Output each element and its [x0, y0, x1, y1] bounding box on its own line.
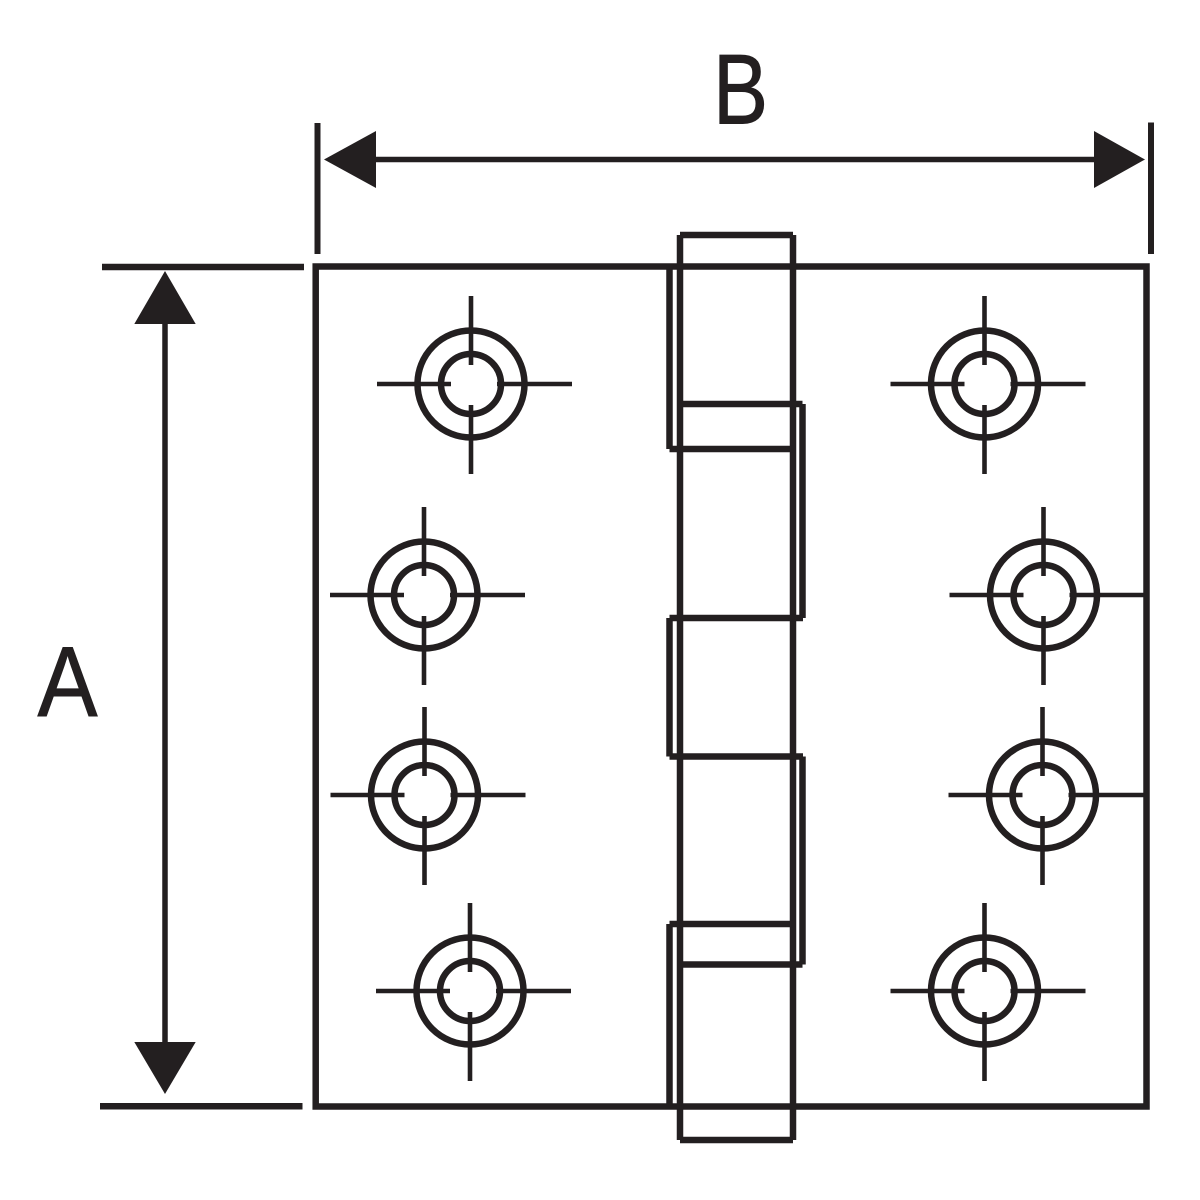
knuckle joint line y=756 [670, 753, 804, 760]
dimension A bottom extension line [100, 1103, 303, 1110]
knuckle barrel left edge x=680 [677, 235, 684, 1140]
dimension A top arrowhead [134, 271, 195, 324]
knuckle joint line y=618 [670, 615, 804, 622]
dimension B left extension tick [315, 123, 321, 254]
dimension B right extension tick [1148, 123, 1154, 255]
knuckle bottom cap [680, 1137, 793, 1144]
dimension B left arrowhead [324, 131, 376, 188]
label A [38, 627, 99, 738]
knuckle joint line y=449 [670, 446, 794, 453]
knuckle joint line y=924 [670, 921, 794, 928]
knuckle barrel right edge x=793 [790, 235, 797, 1140]
screw hole L1 [377, 296, 572, 474]
screw hole L3 [331, 707, 526, 885]
screw hole R3 [949, 707, 1144, 885]
screw hole L4 [376, 903, 571, 1081]
dimension line B shaft [370, 157, 1100, 163]
label B [713, 34, 768, 145]
screw hole R4 [891, 903, 1086, 1081]
knuckle top cap [680, 232, 793, 239]
knuckle left leaf edge segments x=669.5 [666, 267, 673, 1107]
knuckle right leaf edge segments x=802.5 [799, 404, 806, 965]
screw hole R1 [891, 296, 1086, 474]
knuckle joint line y=404 [682, 401, 803, 408]
screw hole L2 [330, 507, 525, 685]
screw hole R2 [950, 507, 1145, 685]
svg-text:B: B [713, 34, 768, 145]
dimension A bottom arrowhead [134, 1042, 195, 1094]
dimension B right arrowhead [1094, 131, 1145, 188]
dimension line A shaft [162, 320, 168, 1046]
knuckle joint line y=964 [682, 961, 803, 968]
dimension A top extension line [102, 264, 304, 271]
hinge leaf plate outline [316, 267, 1147, 1107]
svg-text:A: A [38, 627, 99, 738]
